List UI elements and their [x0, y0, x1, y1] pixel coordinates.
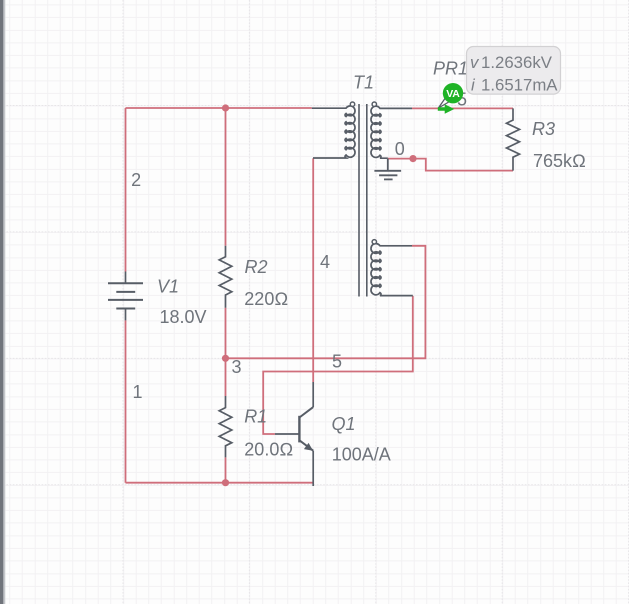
resistor R3 [507, 108, 520, 170]
probe arrow [438, 104, 455, 113]
svg-text:Q1: Q1 [332, 414, 356, 434]
svg-text:T1: T1 [353, 72, 374, 92]
wire net1 left vertical [125, 320, 127, 482]
svg-text:220Ω: 220Ω [244, 289, 288, 309]
wire net4 primary bottom to collector [312, 158, 314, 382]
svg-text:0: 0 [395, 139, 405, 159]
transformer phase dot secondary top [372, 102, 376, 106]
transformer T1 secondary bottom winding [371, 244, 413, 296]
ground [374, 159, 401, 180]
junction node 0 dot [409, 155, 416, 162]
svg-text:R2: R2 [245, 257, 268, 277]
svg-text:20.0Ω: 20.0Ω [244, 440, 293, 460]
junction bottom dot [222, 479, 229, 486]
transformer phase dot secondary bottom [372, 240, 376, 244]
wire top right to R3 [412, 107, 513, 109]
probe VA circle [443, 83, 463, 103]
svg-text:PR1: PR1 [433, 59, 468, 79]
probe PR1 readout box [467, 47, 561, 95]
wire net1 bottom horizontal [126, 482, 314, 484]
svg-text:4: 4 [320, 252, 330, 272]
svg-text:3: 3 [232, 357, 242, 377]
probe needle [438, 98, 449, 108]
transistor Q1 [275, 382, 313, 486]
wire node3 to R1 [225, 358, 227, 396]
transformer phase dot primary [350, 102, 354, 106]
svg-text:R1: R1 [244, 407, 267, 427]
svg-text:5: 5 [332, 352, 342, 372]
svg-text:V1: V1 [157, 276, 179, 296]
svg-text:2: 2 [131, 170, 141, 190]
wire net5 node3 to winding top [226, 246, 426, 358]
svg-text:1.6517mA: 1.6517mA [481, 76, 558, 95]
resistor R1 [219, 396, 232, 457]
junction node 3 dot [222, 355, 229, 362]
wire net2 left vertical [125, 108, 127, 272]
wire ground net to R3 bottom [388, 159, 513, 171]
svg-text:1: 1 [133, 382, 143, 402]
svg-text:R3: R3 [532, 119, 555, 139]
transformer T1 primary winding [312, 106, 355, 158]
transistor Q1 emitter arrow [304, 443, 313, 451]
svg-text:18.0V: 18.0V [160, 307, 207, 327]
transformer T1 core [359, 104, 367, 297]
junction node dot top [222, 104, 229, 111]
svg-text:765kΩ: 765kΩ [533, 151, 586, 171]
wire R2 bottom to node3 [225, 308, 227, 359]
svg-text:A: A [452, 88, 460, 100]
svg-text:100A/A: 100A/A [332, 445, 391, 465]
wire net2 top horizontal [126, 107, 312, 109]
svg-text:1.2636kV: 1.2636kV [481, 53, 553, 72]
battery V1 [108, 272, 143, 321]
resistor R2 [219, 246, 232, 308]
transformer T1 secondary top winding [371, 106, 412, 158]
wire net to base loop [263, 296, 413, 434]
wire R2 top stub [225, 108, 227, 246]
wire R1 bottom [225, 457, 227, 482]
